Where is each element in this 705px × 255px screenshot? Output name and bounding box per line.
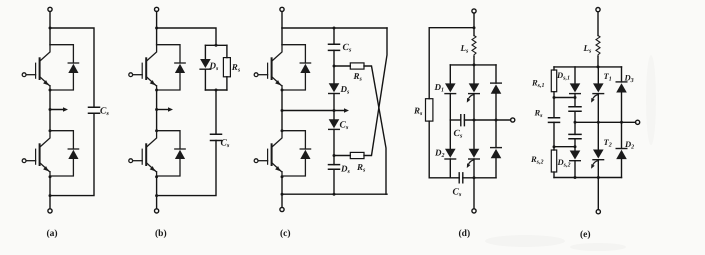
diode D4 (d) up [491,148,502,159]
node (c) lower Rs tap [333,154,336,157]
wire (c) top rail [282,27,387,29]
wire (e) col1 upper lead [553,67,555,70]
svg-text:(e): (e) [580,230,591,240]
terminal P (b) top [155,7,159,11]
svg-text:Cs: Cs [453,188,462,199]
node (e) rung1 col2 [574,96,577,99]
node (e) rung1 col1 [553,96,556,99]
node (c) lower split [281,129,284,132]
capacitor Cs (a) [89,107,100,113]
wire (a) output arrow [50,109,65,111]
wire (a) top rail to snubber [50,28,94,107]
wire (c) upper diode link [333,66,335,83]
wire (e) inductor bottom lead [597,57,599,67]
thyristor T2 (e) [593,150,604,160]
wire (c) upper Rs lead [334,65,350,67]
node (a) midpoint [49,89,52,92]
wire (e) col1 to rung1 [553,92,555,98]
wire (e) col4 upper lead [621,67,623,82]
IGBT Q5 [254,45,282,90]
capacitor Cs (c) upper [329,44,340,50]
node (e) top bus junction [597,65,600,68]
wire (a) top lead [49,12,51,29]
svg-text:Rs,2: Rs,2 [530,154,544,166]
wire (d) branch3 upper lead [495,65,497,83]
faint scan smudge lower middle [485,235,565,247]
node (b) bottom rail junction [155,194,158,197]
node (d) top junction [473,26,476,29]
node (a) output [49,108,52,111]
node (a) bottom rail junction [49,194,52,197]
node (c) bottom rail snubber junction [333,193,336,196]
node (b) lower split [155,129,158,132]
wire (d) branch1 lower2 [449,120,451,149]
node (d) bottom bus b2 [473,176,476,179]
wire (e) col4 to mid bus [621,93,623,123]
wire (d) branch1 lower lead [449,94,451,120]
IGBT Q6 [254,131,282,176]
svg-text:Rs: Rs [353,71,363,83]
node (b) emitter merge [155,175,158,178]
diode Ds (b) [200,59,211,69]
wire (d) inductor bottom lead [473,57,475,65]
wire (b) output arrow [157,109,170,111]
capacitor Cs1 (e) col1 [549,118,560,123]
terminal P (c) top [280,7,284,11]
thyristor T2 (d) [469,149,480,159]
wire (b) Ds leg upper [204,45,206,59]
terminal P (e) top [596,8,600,12]
diode D6 anti-parallel [282,131,311,176]
wire (c) collector link [281,28,283,45]
terminal N (b) bottom [155,209,159,213]
wire (e) col3 to bottom bus [597,160,599,178]
capacitor Cs2 (e) col2 upper [569,107,581,111]
wire (b) snubber bottom bar [205,89,227,91]
wire (d) branch1 upper lead [449,65,451,84]
diode Ds1 (e) [570,83,581,93]
wire (c) bottom rail [282,193,387,195]
wire (b) top lead [156,12,158,29]
node (d) mid bus b3 [495,119,498,122]
svg-text:D1: D1 [434,82,445,94]
node (a) top rail junction [49,27,52,30]
wire (c) lower cap to rail [333,169,335,194]
wire (d) branch3 lower lead [495,94,497,120]
wire (c) upper diode to bus [333,94,335,111]
capacitor Cs (b) [211,134,222,140]
wire (d) branch2 lower2 [473,120,475,149]
svg-text:Ds,2: Ds,2 [557,157,571,169]
wire (a) bottom lead [49,177,51,209]
thyristor T1 (e) [593,83,604,93]
wire (e) col2 cap to rung2 [574,139,576,147]
diode D1 (d) [445,83,456,93]
node (e) mid bus col3 [597,121,600,124]
wire (d) branch2 upper lead [473,65,475,84]
faint scan smudge right of (e) [646,55,656,145]
svg-text:Rs: Rs [231,62,241,74]
wire (d) branch3 lower2 [495,120,497,148]
resistor Rs (c) upper [350,63,364,69]
wire (d) left bypass [429,28,474,99]
node (a) emitter merge [49,175,52,178]
wire (e) mid bus [575,121,636,123]
diode D2 anti-parallel [50,131,79,176]
wire (e) col1 to Rs2 [553,147,555,150]
wire (c) mid vertical [281,90,283,131]
wire (e) col2 to bottom bus [574,161,576,178]
wire (c) lower Rs lead [334,155,350,157]
svg-text:Ls: Ls [460,43,470,55]
node (e) mid bus col2 [574,121,577,124]
wire (a) mid vertical [49,90,51,131]
svg-text:Rs: Rs [413,106,423,118]
wire (b) top rail to snubber [157,28,216,45]
svg-text:T2: T2 [604,137,612,149]
terminal N (a) bottom [48,209,52,213]
node (e) rung2 col1 [553,145,556,148]
node (c) upper Rs tap [333,65,336,68]
diode D4 (e) up [616,149,627,160]
capacitor Cs (d) mid [461,115,465,126]
wire (e) col4 below mid bus [621,122,623,148]
node (b) top rail junction [155,27,158,30]
wire (d) branch1 to bottom bus [449,159,451,178]
IGBT Q4 [129,131,157,176]
svg-text:Ds: Ds [209,61,220,73]
wire (d) bottom bus left [429,177,459,179]
wire (e) rung1 [554,97,575,99]
terminal N (d) bottom [472,209,476,213]
svg-text:D3: D3 [624,73,634,85]
wire (b) Rs leg lower [226,77,228,90]
resistor Rs2 (e) [551,150,556,172]
node (c) top rail snubber junction [333,27,336,30]
diode Ds2 (e) [570,151,581,161]
node (b) snubber bottom [215,89,218,92]
terminal N (e) bottom [596,210,600,214]
capacitor Cs2 (d) bottom [459,173,463,183]
wire (a) bottom rail from snubber [50,113,94,195]
IGBT Q2 [22,131,50,176]
diode D2 (d) [445,149,456,159]
wire (e) col2 below mid bus [574,122,576,134]
node (e) bottom bus col2 [574,176,577,179]
wire (c) cap to node [333,50,335,66]
svg-text:Cs: Cs [100,107,109,118]
wire (d) top bus [450,64,496,66]
wire (c) lower diode link [333,111,335,120]
wire (e) rung2 [554,146,575,148]
svg-text:Ls: Ls [583,43,593,55]
IGBT Q1 [22,45,50,90]
diode D1 anti-parallel [50,45,79,90]
node (d) mid bus b2 [473,119,476,122]
wire (b) collector link [156,28,158,45]
wire (d) bottom bus right [463,177,496,179]
resistor Rs1 (e) [551,70,556,92]
terminal N (c) bottom [280,207,284,211]
diode D3 (e) up [616,82,627,93]
svg-text:Ds,1: Ds,1 [556,70,570,82]
diode Ds2 (c) lower [329,119,340,129]
wire (e) col4 to bottom bus [621,159,623,177]
node (e) bottom bus col3 [597,176,600,179]
wire (d) left bypass lower [428,121,430,178]
wire (e) col3 upper lead [597,67,599,84]
thyristor T1 (d) [469,83,480,93]
svg-text:Rs: Rs [356,162,366,174]
diode D3 (d) up [491,83,502,94]
capacitor Cs2 (c) lower [329,165,340,170]
wire (c) top lead [281,12,283,29]
wire (e) bottom lead [597,178,599,210]
terminal P (a) top [48,7,52,11]
diode D5 anti-parallel [282,45,311,90]
svg-text:Cs: Cs [340,121,349,132]
node (d) top bus junction [473,63,476,66]
node (b) midpoint [155,89,158,92]
resistor Rs (d) [426,99,433,121]
wire (c) bottom lead [281,177,283,208]
wire (e) top lead [597,12,599,36]
svg-text:Rs,1: Rs,1 [531,78,545,90]
node (b) output [155,108,158,111]
wire (e) col2 diode to rung1 [574,94,576,107]
wire (b) Rs leg upper [226,45,228,57]
diode Ds (c) upper [329,83,340,93]
wire (d) branch2 to bottom bus [473,159,475,178]
wire (e) col2 rung2 to Ds2 [574,147,576,151]
svg-text:D2: D2 [624,139,634,151]
wire (e) top bus [554,66,622,68]
inductor Ls (d) [472,36,476,57]
wire (a) collector link [49,28,51,45]
svg-text:Ds: Ds [340,164,351,176]
wire (c) output bus with arrow [282,110,346,112]
svg-text:Cs: Cs [343,43,352,54]
wire (e) col1 lower mid [553,122,555,146]
node (b) snubber top [215,44,218,47]
wire (e) col3 below mid bus [597,122,599,149]
wire (b) Ds leg lower [204,69,206,90]
svg-text:Ds: Ds [340,84,351,96]
svg-text:D2: D2 [434,148,445,160]
terminal P (d) top [472,9,476,13]
wire (d) mid bus left [450,119,461,121]
wire (c) cross link B top [364,66,386,194]
wire (e) col2 upper lead [574,67,576,84]
node (c) midpoint [281,89,284,92]
svg-text:Cs: Cs [454,129,463,140]
wire (b) bottom lead [156,177,158,209]
terminal out (d) [511,118,515,122]
wire (e) bottom bus [554,177,622,179]
svg-text:T1: T1 [604,71,612,83]
svg-text:Rs: Rs [534,108,544,120]
diode D4 anti-parallel [157,131,186,176]
svg-text:(a): (a) [47,229,58,239]
wire (e) col1 mid [553,98,555,118]
capacitor Cs3 (e) col2 lower [569,134,581,138]
wire (b) mid vertical [156,90,158,131]
wire (d) inductor top lead [473,28,475,36]
diode D3 anti-parallel [157,45,186,90]
svg-text:(b): (b) [155,229,167,239]
wire (d) bottom lead [473,178,475,209]
wire (b) snubber top bar [205,44,227,46]
node (c) bottom rail junction [281,193,284,196]
wire (d) top lead [473,13,475,28]
wire (e) col3 to mid bus [597,94,599,123]
resistor Rs (b) [223,58,230,77]
resistor Rs (c) lower [350,152,364,158]
node (c) emitter merge [281,175,284,178]
svg-text:Cs: Cs [221,139,230,150]
node (e) mid bus col4 [620,121,623,124]
wire (d) branch3 to bottom bus [495,158,497,178]
wire (c) lower diode to node [333,129,335,155]
node (e) rung2 col2 [574,145,577,148]
wire (b) snubber to bottom rail [157,141,216,196]
svg-text:(c): (c) [280,229,291,239]
node (a) lower split [49,129,52,132]
node (c) output [281,109,284,112]
wire (e) col2 to mid bus [574,111,576,122]
faint scan smudge below (e) [570,243,626,251]
wire (d) mid bus right [464,119,510,121]
node (c) bus snubber junction [333,109,336,112]
inductor Ls (e) [596,36,600,57]
wire (d) branch2 mid lead [473,94,475,120]
wire (c) snubber upper link [333,28,335,44]
wire (c) cross link A from top rail [364,28,387,156]
wire (b) snubber mid [215,90,217,134]
terminal out (e) [636,120,640,124]
wire (e) col1 to bottom bus [553,172,555,178]
IGBT Q3 [129,45,157,90]
svg-text:(d): (d) [459,229,471,239]
wire (c) node to lower cap [333,156,335,165]
